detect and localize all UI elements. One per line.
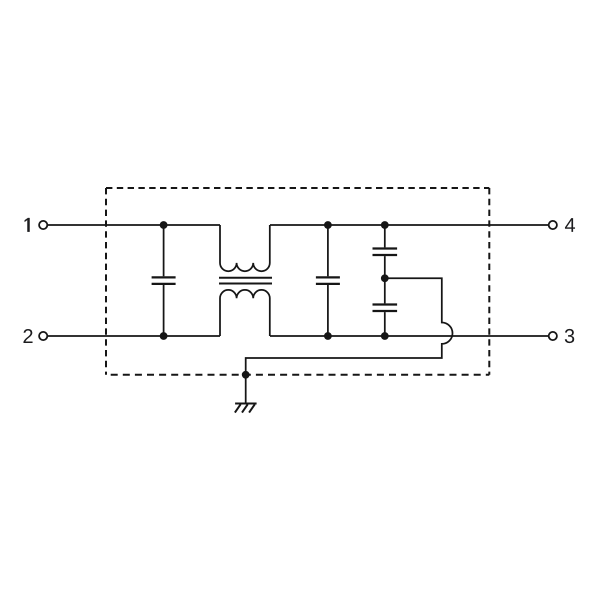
wire bottom-left (terminal 2 to choke) [48, 335, 220, 337]
capacitor C1 (X-cap left) [152, 225, 176, 336]
label 2 [23, 329, 32, 343]
node dot C1 bottom [160, 332, 168, 340]
common-mode choke L1 top winding [220, 225, 270, 271]
node dot chassis (on case border) [242, 371, 250, 379]
capacitor C4 (Y-cap lower) [373, 278, 398, 336]
choke core [219, 278, 272, 284]
node dot Y-cap top [381, 221, 389, 229]
capacitor C3 (Y-cap upper) [373, 225, 398, 278]
wire bottom-right (choke to terminal 3) [270, 335, 549, 337]
shield case (dashed enclosure) [106, 188, 489, 375]
wire top-left (terminal 1 to choke) [48, 224, 220, 226]
capacitor C2 (X-cap right) [316, 225, 340, 336]
terminal 2 [39, 332, 47, 340]
common-mode choke L1 bottom winding [220, 290, 270, 336]
terminal 1 [39, 221, 47, 229]
label 1 [25, 218, 30, 232]
node dot C2 bottom [324, 332, 332, 340]
terminal 3 [549, 332, 557, 340]
label 3 [565, 329, 574, 343]
ground wire from Y-cap midpoint with hop over bottom wire [246, 278, 453, 403]
label 4 [565, 218, 575, 232]
chassis ground symbol [235, 404, 257, 413]
wire top-right (choke to terminal 4) [270, 224, 548, 226]
node dot C2 top [324, 221, 332, 229]
node dot Y-cap bottom [381, 332, 389, 340]
node dot Y-cap midpoint [381, 274, 389, 282]
terminal 4 [549, 221, 557, 229]
node dot C1 top [160, 221, 168, 229]
